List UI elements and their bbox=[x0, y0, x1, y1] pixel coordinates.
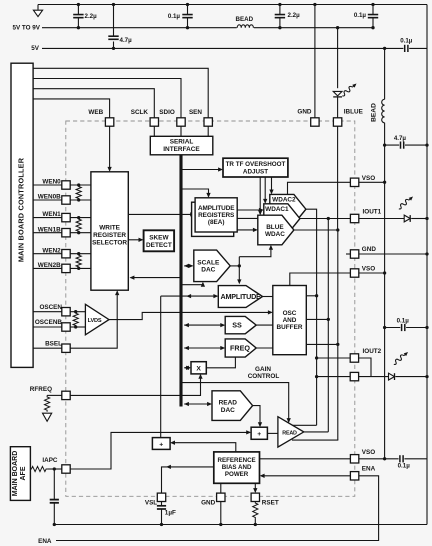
wire SCLK pin to serial interface bbox=[153, 126, 155, 136]
svg-text:SCALE: SCALE bbox=[197, 259, 220, 266]
block SERIAL INTERFACE bbox=[150, 136, 213, 155]
svg-text:MAIN BOARD: MAIN BOARD bbox=[12, 451, 19, 497]
wire GND top rail bbox=[38, 4, 427, 6]
wire right edge (GND) bbox=[426, 5, 428, 525]
wire read dac to summer bbox=[253, 406, 260, 426]
wire read amp output 3 bbox=[292, 439, 338, 441]
wire to amplitude dac top bbox=[238, 257, 240, 283]
wire IBLUE from 9V rail bbox=[336, 26, 339, 29]
svg-text:ENA: ENA bbox=[362, 466, 376, 473]
pin WEN0B bbox=[62, 196, 70, 204]
wire ENA to reference bbox=[261, 475, 350, 477]
bus (serial interface to blocks) bbox=[179, 155, 182, 407]
svg-text:AMPLITUDE: AMPLITUDE bbox=[198, 205, 235, 212]
svg-text:(8EA): (8EA) bbox=[208, 219, 225, 226]
wire VSO1 to supply vertical bbox=[359, 181, 385, 183]
svg-text:INTERFACE: INTERFACE bbox=[163, 146, 200, 153]
svg-text:VSO: VSO bbox=[362, 175, 375, 182]
wire osc top to VSO bbox=[290, 273, 350, 286]
wire BSEL bbox=[33, 347, 62, 349]
ferrite bead (VSO vertical) bbox=[382, 99, 385, 123]
wire GND (right) stub bbox=[346, 253, 350, 255]
light emission arrow (IBLUE) bbox=[341, 82, 358, 98]
capacitor 2.2u #1 bbox=[77, 5, 79, 15]
wire bus to amplitude registers (top) bbox=[182, 189, 208, 197]
summer (right) bbox=[251, 427, 267, 439]
svg-text:READ: READ bbox=[219, 400, 238, 407]
svg-text:READ: READ bbox=[282, 430, 297, 436]
svg-text:SCLK: SCLK bbox=[131, 109, 149, 116]
capacitor 2.2u #3 bbox=[279, 5, 281, 15]
capacitor 4.7u (VSO) bbox=[383, 143, 386, 146]
pin VSO (1) bbox=[350, 178, 358, 186]
svg-text:AND: AND bbox=[283, 317, 297, 324]
DAC WDAC1 bbox=[264, 204, 300, 234]
block MAIN BOARD CONTROLLER bbox=[11, 63, 33, 367]
svg-text:BUFFER: BUFFER bbox=[277, 324, 303, 331]
svg-text:OSCENB: OSCENB bbox=[35, 319, 63, 326]
pin SDIO bbox=[177, 118, 185, 126]
laser diode (IBLUE) bbox=[333, 91, 342, 96]
svg-text:AMPLITUDE: AMPLITUDE bbox=[221, 292, 262, 301]
wire amplitude dac to osc bbox=[263, 296, 273, 298]
wire summer to read amp bbox=[267, 432, 278, 434]
wire GND pin to top rail bbox=[314, 5, 316, 118]
termination resistor (WEN pair) bbox=[76, 185, 81, 200]
wire bottom GND rail bbox=[54, 524, 427, 526]
wire WEN0 bbox=[33, 184, 62, 186]
svg-text:DETECT: DETECT bbox=[146, 242, 172, 249]
block SKEW DETECT bbox=[144, 230, 175, 251]
wire read amp output 1 bbox=[293, 424, 317, 426]
svg-text:SS: SS bbox=[232, 321, 242, 330]
wire SEN from controller bbox=[33, 68, 208, 118]
svg-text:POWER: POWER bbox=[225, 471, 249, 478]
svg-text:+: + bbox=[257, 431, 261, 438]
power arrow (off-page, top left) bbox=[37, 5, 39, 10]
wire WEN0B bbox=[33, 199, 62, 201]
pin WEN0 bbox=[62, 181, 70, 189]
wire V1 (to summer) bbox=[160, 296, 162, 438]
svg-text:DAC: DAC bbox=[221, 407, 235, 414]
svg-text:GND: GND bbox=[362, 246, 377, 253]
pin OSCEN bbox=[62, 308, 70, 316]
laser diode (IOUT2) bbox=[359, 376, 391, 378]
wire bus to write register selector bbox=[131, 277, 180, 279]
svg-text:WRITE: WRITE bbox=[99, 225, 120, 232]
svg-text:VSL: VSL bbox=[145, 499, 157, 506]
svg-text:1µF: 1µF bbox=[165, 510, 176, 517]
pin VSO (3) bbox=[350, 455, 358, 463]
svg-text:CONTROL: CONTROL bbox=[248, 373, 280, 380]
block OSC AND BUFFER bbox=[273, 286, 307, 355]
wire SCLK from controller bbox=[33, 89, 154, 118]
wire LVDS output to osc bbox=[109, 312, 272, 319]
DAC SCALE DAC bbox=[194, 250, 230, 282]
pin VSO (2) bbox=[350, 269, 358, 277]
svg-text:REGISTERS: REGISTERS bbox=[198, 212, 235, 219]
svg-text:0.1µ: 0.1µ bbox=[398, 462, 411, 469]
svg-text:OSCEN: OSCEN bbox=[39, 304, 62, 311]
block MAIN BOARD AFE bbox=[10, 447, 30, 501]
wire WDAC2 output to vertical bbox=[306, 209, 317, 425]
svg-text:BEAD: BEAD bbox=[370, 103, 377, 122]
pin WEN2 bbox=[62, 250, 70, 258]
svg-text:RFREQ: RFREQ bbox=[30, 386, 52, 393]
light emission arrow (IOUT1) bbox=[397, 195, 414, 211]
wire scale dac output bbox=[230, 265, 239, 267]
resistor (RFREQ) bbox=[45, 395, 50, 411]
pin GND (bottom) bbox=[217, 493, 225, 501]
wire bus to freq dac bbox=[184, 347, 224, 349]
svg-text:SELECTOR: SELECTOR bbox=[92, 240, 127, 247]
svg-text:SKEW: SKEW bbox=[149, 234, 169, 241]
amplifier READ bbox=[278, 417, 304, 447]
capacitor 0.1u #4 bbox=[372, 5, 374, 15]
svg-text:WEN1: WEN1 bbox=[42, 211, 61, 218]
block REFERENCE BIAS AND POWER bbox=[214, 452, 260, 483]
wire WDAC1 output (IOUT1 net) bbox=[300, 218, 350, 220]
svg-text:RSET: RSET bbox=[262, 499, 279, 506]
wire IAPC to summer bbox=[70, 432, 250, 469]
svg-text:WDAC: WDAC bbox=[265, 231, 285, 238]
svg-text:WEN2: WEN2 bbox=[42, 247, 61, 254]
svg-text:0.1µ: 0.1µ bbox=[168, 13, 181, 20]
wire 5V rail bbox=[42, 47, 427, 49]
pin IOUT2 (2) bbox=[350, 372, 358, 380]
pin SEN bbox=[204, 118, 212, 126]
wire to blue wdac bottom bbox=[239, 246, 271, 257]
wire IBLUE inside chip bbox=[337, 126, 339, 230]
svg-text:+: + bbox=[159, 442, 163, 449]
wire RFREQ to X bbox=[70, 375, 200, 395]
wire WEB from controller bbox=[33, 99, 110, 118]
block AMPLITUDE REGISTERS (8EA) shadow box bbox=[192, 202, 234, 236]
DAC WDAC2 bbox=[270, 194, 306, 224]
wire amplitude registers to BLUE WDAC (upper) bbox=[237, 217, 258, 219]
svg-text:WEB: WEB bbox=[88, 109, 103, 116]
svg-text:WDAC1: WDAC1 bbox=[265, 206, 289, 213]
chip boundary (dashed) bbox=[66, 121, 355, 496]
wire supply vertical (VSO net) bbox=[384, 48, 386, 99]
svg-text:5V: 5V bbox=[31, 45, 40, 52]
wire osc output 1 bbox=[306, 295, 316, 297]
svg-text:SEN: SEN bbox=[189, 109, 202, 116]
wire TR TF adjust to BLUE WDAC bbox=[259, 177, 261, 214]
svg-text:GND: GND bbox=[201, 499, 216, 506]
svg-text:BIAS AND: BIAS AND bbox=[222, 464, 252, 471]
wire WEN1B bbox=[33, 232, 62, 234]
wire write register selector to amplitude registers bbox=[128, 213, 194, 215]
wire ENA out bbox=[56, 476, 379, 541]
svg-text:REFERENCE: REFERENCE bbox=[218, 457, 256, 464]
pin WEB bbox=[105, 118, 113, 126]
pin BSEL bbox=[62, 344, 70, 352]
pin VSL bbox=[157, 493, 165, 501]
svg-text:ENA: ENA bbox=[38, 538, 52, 545]
svg-text:5V TO 9V: 5V TO 9V bbox=[12, 24, 40, 31]
wire gain control bbox=[182, 383, 288, 422]
svg-text:0.1µ: 0.1µ bbox=[354, 12, 367, 19]
pin IOUT1 bbox=[350, 214, 358, 222]
wire bus to read dac bbox=[184, 403, 211, 405]
svg-text:MAIN BOARD CONTROLLER: MAIN BOARD CONTROLLER bbox=[17, 157, 26, 262]
svg-text:X: X bbox=[196, 366, 201, 373]
wire 5V-9V rail bbox=[42, 27, 373, 29]
DAC SS bbox=[225, 316, 256, 333]
svg-text:4.7µ: 4.7µ bbox=[394, 135, 407, 142]
wire WEN2 bbox=[33, 253, 62, 255]
svg-text:ADJUST: ADJUST bbox=[243, 169, 268, 176]
wire GND pin to rail bbox=[220, 502, 222, 525]
ground arrow (RFREQ) bbox=[43, 413, 52, 421]
svg-text:WEN0B: WEN0B bbox=[38, 194, 61, 201]
pin IAPC bbox=[62, 465, 70, 473]
svg-text:FREQ: FREQ bbox=[230, 344, 250, 353]
capacitor (IAPC) bbox=[53, 469, 55, 499]
svg-text:WEN0: WEN0 bbox=[42, 179, 61, 186]
svg-text:DAC: DAC bbox=[201, 267, 215, 274]
wire OSCENB bbox=[33, 326, 62, 328]
buffer LVDS bbox=[85, 304, 109, 335]
block WRITE REGISTER SELECTOR bbox=[91, 172, 128, 290]
svg-text:BEAD: BEAD bbox=[236, 16, 254, 23]
wire reference to left summer bbox=[171, 443, 235, 456]
svg-text:IAPC: IAPC bbox=[42, 457, 58, 464]
wire IOUT2 pin1 bbox=[317, 357, 351, 359]
pin WEN1 bbox=[62, 213, 70, 221]
svg-text:BSEL: BSEL bbox=[45, 340, 62, 347]
capacitor 1uF (VSL) bbox=[161, 502, 163, 506]
svg-text:SDIO: SDIO bbox=[159, 109, 175, 116]
pin GND (right) bbox=[350, 250, 358, 258]
wire VSO3 out bbox=[359, 458, 427, 460]
capacitor 0.1u series (5V line) bbox=[403, 45, 409, 52]
wire WEN1 bbox=[33, 217, 62, 219]
svg-text:SERIAL: SERIAL bbox=[170, 139, 194, 146]
block TR TF OVERSHOOT ADJUST bbox=[223, 158, 288, 177]
wire bus to X bbox=[184, 367, 190, 369]
resistor (RSET) bbox=[253, 502, 258, 520]
svg-text:LVDS: LVDS bbox=[88, 318, 102, 324]
svg-text:VSO: VSO bbox=[362, 449, 375, 456]
capacitor 4.7u bbox=[113, 5, 115, 36]
multiplier X bbox=[191, 362, 206, 374]
wire reference to GND pin bbox=[220, 483, 222, 493]
wire osc output 2 bbox=[306, 318, 328, 320]
DAC BLUE WDAC bbox=[258, 215, 294, 245]
svg-text:IBLUE: IBLUE bbox=[344, 108, 363, 115]
wire WEB pin to write register selector bbox=[109, 126, 111, 170]
capacitor 0.1u (VSO mid) bbox=[383, 326, 386, 329]
termination resistor (WEN pair) bbox=[76, 254, 81, 269]
svg-text:AFE: AFE bbox=[20, 466, 27, 480]
wire read amp output 2 bbox=[304, 431, 329, 433]
wire IOUT2 pin1 to pin2 bbox=[359, 358, 371, 377]
wire reference to VSL bbox=[162, 467, 214, 493]
summer (left) bbox=[152, 438, 170, 450]
svg-text:IOUT1: IOUT1 bbox=[363, 209, 382, 216]
wire bus to ss dac bbox=[184, 324, 224, 326]
wire OSCEN bbox=[33, 311, 62, 313]
wire WEN2B bbox=[33, 267, 62, 269]
svg-text:0.1µ: 0.1µ bbox=[400, 37, 413, 44]
wire IAPC bbox=[47, 468, 62, 470]
wire osc output 3 bbox=[306, 343, 338, 345]
wire RFREQ stub bbox=[47, 394, 62, 396]
svg-text:2.2µ: 2.2µ bbox=[288, 12, 301, 19]
DAC AMPLITUDE bbox=[218, 286, 262, 308]
wire IOUT2 pin2 bbox=[317, 376, 351, 378]
pin RFREQ bbox=[62, 391, 70, 399]
svg-text:WEN1B: WEN1B bbox=[38, 226, 61, 233]
wire VSO1 to WDAC2 top bbox=[288, 182, 351, 194]
wire freq dac to osc bbox=[256, 347, 273, 349]
wire GND (right) to edge bbox=[359, 253, 427, 255]
resistor (IAPC) bbox=[30, 466, 47, 471]
svg-text:REGISTER: REGISTER bbox=[93, 232, 126, 239]
wire TR TF adjust to WDAC2 bbox=[271, 177, 273, 193]
capacitor 0.1u (VSO bottom) bbox=[399, 455, 405, 462]
svg-text:IOUT2: IOUT2 bbox=[363, 348, 382, 355]
DAC FREQ bbox=[225, 339, 256, 357]
pin WEN2B bbox=[62, 264, 70, 272]
capacitor 0.1u #2 bbox=[187, 5, 189, 15]
svg-text:OSC: OSC bbox=[283, 310, 297, 317]
wire reference to RSET bbox=[254, 483, 256, 492]
wire vertical IOUT1 tap to READ bbox=[327, 219, 329, 432]
wire bus to scale dac bbox=[184, 265, 192, 267]
pin IOUT2 (1) bbox=[350, 354, 358, 362]
wire BLUE WDAC output (IBLUE net) bbox=[294, 230, 338, 440]
wire SEN pin to serial interface bbox=[207, 126, 209, 136]
pin IBLUE bbox=[333, 118, 341, 126]
wire TR TF adjust to WDAC1 bbox=[264, 177, 266, 203]
wire SDIO from controller bbox=[33, 79, 181, 118]
light emission arrow (IOUT2) bbox=[392, 350, 409, 366]
wire ss dac to osc bbox=[256, 324, 273, 326]
svg-text:2.2µ: 2.2µ bbox=[85, 13, 98, 20]
svg-text:WDAC2: WDAC2 bbox=[272, 196, 296, 203]
wire VSO2 to supply vertical bbox=[359, 272, 385, 274]
wire bus to TR TF overshoot adjust bbox=[182, 169, 221, 171]
block AMPLITUDE REGISTERS (8EA) bbox=[195, 198, 237, 232]
svg-text:0.1µ: 0.1µ bbox=[397, 317, 410, 324]
pin SCLK bbox=[150, 118, 158, 126]
svg-text:4.7µ: 4.7µ bbox=[120, 37, 133, 44]
svg-text:VSO: VSO bbox=[362, 265, 375, 272]
svg-text:GND: GND bbox=[297, 108, 312, 115]
wire write register selector to skew detect bbox=[128, 239, 142, 241]
wire amplitude registers to WDAC1 bbox=[237, 209, 262, 211]
termination resistor (WEN pair) bbox=[76, 218, 81, 233]
svg-text:GAIN: GAIN bbox=[255, 366, 271, 373]
pin OSCENB bbox=[62, 323, 70, 331]
pin RSET bbox=[251, 493, 259, 501]
wire amplitude registers to BLUE WDAC (lower) bbox=[237, 229, 256, 231]
pin WEN1B bbox=[62, 229, 70, 237]
wire reference to VSO3 bbox=[260, 458, 351, 460]
laser diode (IOUT1) bbox=[359, 218, 404, 220]
wire V1 link / bus to amplitude dac bbox=[161, 295, 217, 297]
wire SDIO pin to serial interface bbox=[180, 126, 182, 136]
svg-text:TR TF OVERSHOOT: TR TF OVERSHOOT bbox=[226, 161, 286, 168]
svg-text:WEN2B: WEN2B bbox=[38, 262, 61, 269]
pin GND (top) bbox=[311, 118, 319, 126]
wire bus to scale dac bottom bbox=[182, 283, 203, 285]
DAC READ DAC bbox=[212, 391, 253, 421]
termination resistor (OSCEN pair) bbox=[73, 312, 78, 327]
pin ENA bbox=[350, 472, 358, 480]
wire X to freq dac bbox=[206, 357, 235, 368]
